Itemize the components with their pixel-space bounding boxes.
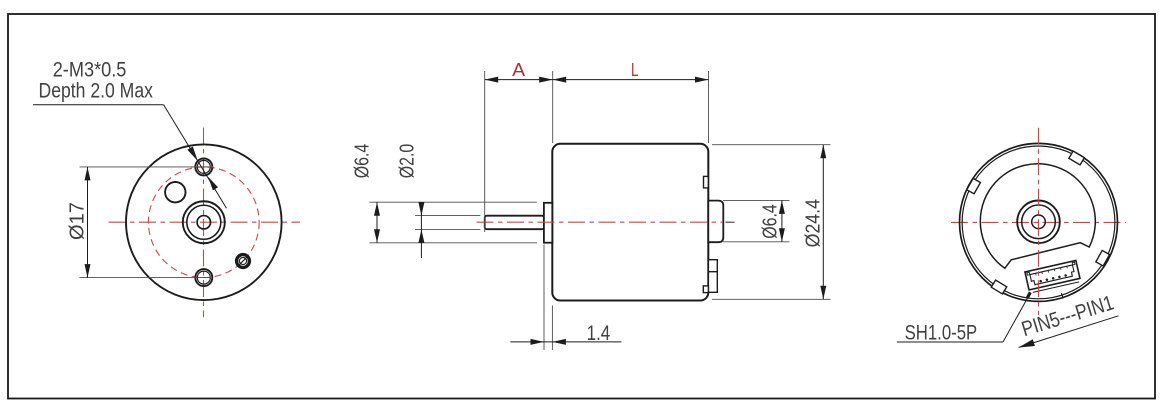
svg-text:Ø6.4: Ø6.4	[760, 204, 782, 239]
front view: center boss middle circle	[187, 205, 221, 239]
front view: motor body outer circle	[126, 144, 282, 300]
dim A: dimension line	[485, 77, 553, 83]
label PIN5---PIN1 underline and arrow	[1019, 316, 1119, 348]
front view: red vertical center line	[203, 128, 205, 318]
dim dia2.0: extension lines	[415, 216, 480, 230]
label SH1.0-5P leader	[897, 292, 1031, 342]
connector SH1.0-5P	[1025, 260, 1081, 293]
dim A/L: extension line at body rear	[708, 71, 710, 143]
rear view: stake tab upper-left	[967, 178, 981, 193]
rear view: end plate circle with chord cut	[980, 164, 1095, 269]
front view: center boss outer circle	[183, 201, 225, 243]
dim dia2.0: dimension line with outside arrows	[418, 202, 424, 258]
side view: red center line	[477, 221, 724, 223]
side view: shaft	[485, 216, 544, 230]
dim dia6.4 front: extension lines	[370, 202, 538, 243]
front view: upper-left vent hole	[165, 182, 185, 202]
side view: top-right tab	[704, 176, 709, 188]
rear view: stake tab upper-right	[1069, 151, 1084, 165]
dim dia6.4 rear: dimension line	[779, 200, 785, 241]
side view: rear bearing boss	[708, 201, 723, 243]
side view: front bearing boss	[544, 203, 552, 243]
svg-text:L: L	[631, 60, 639, 80]
rear view: red vertical center line	[1038, 128, 1040, 315]
svg-text:Ø17: Ø17	[66, 202, 88, 240]
rear view: stake tab lower-right	[1096, 250, 1110, 265]
svg-text:Depth 2.0 Max: Depth 2.0 Max	[39, 80, 154, 103]
front view: bottom M3 screw hole	[195, 269, 212, 286]
rear view: stake tab lower-left	[991, 280, 1006, 294]
note leader arrowhead at hole top-left	[187, 147, 198, 162]
svg-text:1.4: 1.4	[587, 322, 611, 345]
dim A/L: extension line at body front	[552, 71, 554, 143]
front view: red horizontal center line	[109, 221, 301, 223]
front view: bolt circle (red dashed, dia 17)	[148, 167, 259, 278]
svg-text:Ø24.4: Ø24.4	[803, 199, 825, 247]
dim dia6.4 front: dimension line	[374, 202, 380, 243]
front view: top M3 screw hole	[195, 158, 212, 175]
svg-text:SH1.0-5P: SH1.0-5P	[905, 322, 978, 345]
svg-text:2-M3*0.5: 2-M3*0.5	[53, 59, 127, 82]
rear view: inner can circle	[962, 146, 1115, 299]
dim A/L: extension line at shaft tip	[484, 71, 486, 232]
front view: lower-right pin	[237, 255, 250, 268]
dim dia17: dimension line with arrows	[85, 167, 91, 278]
dim 1.4: extension lines	[544, 245, 552, 351]
rear view: can seam tick bottom	[1061, 293, 1063, 298]
note leader line	[33, 105, 227, 209]
rear view: bearing shaft circle	[1032, 215, 1046, 229]
dim dia6.4 rear: extension lines	[723, 200, 790, 241]
rear view: red horizontal center line	[951, 221, 1126, 223]
side view: bottom terminal	[703, 260, 717, 293]
svg-text:Ø2.0: Ø2.0	[396, 144, 418, 179]
svg-text:Ø6.4: Ø6.4	[352, 144, 374, 179]
rear view: bearing middle circle	[1022, 205, 1056, 239]
rear view: outer can circle	[960, 143, 1118, 301]
dim L: dimension line	[553, 77, 709, 83]
dim dia17: extension line bottom	[80, 277, 212, 279]
svg-text:A: A	[512, 60, 525, 80]
note arrow to hole lower-right (depth)	[208, 177, 218, 191]
front view: red center tick at top hole	[191, 166, 214, 168]
dim dia24.4: dimension line	[820, 145, 826, 300]
rear view: bearing outer circle	[1017, 201, 1060, 244]
front view: shaft hole circle	[197, 216, 210, 229]
dim dia24.4: extension lines	[712, 145, 831, 300]
dim 1.4: dimension line with outside arrows	[510, 339, 621, 345]
side view: motor body	[552, 144, 708, 301]
dim dia17: extension line top	[80, 166, 210, 168]
side view: center line black tail	[726, 221, 735, 223]
